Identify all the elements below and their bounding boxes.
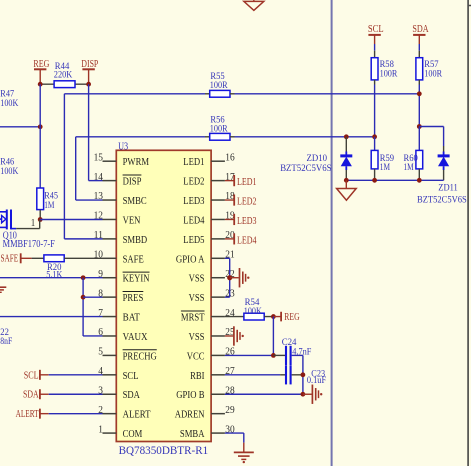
junction MRST-REG [271, 314, 276, 319]
ground at pin 28 [303, 393, 312, 395]
wire ZD11 branch [419, 126, 443, 128]
svg-text:MRST: MRST [181, 312, 205, 324]
ground at pin 25 [225, 335, 233, 337]
svg-text:KEYIN: KEYIN [123, 273, 150, 285]
pin 21 GPIO A [211, 257, 225, 259]
svg-text:GPIO A: GPIO A [176, 253, 205, 265]
transistor Q10 [6, 210, 8, 230]
svg-text:LED1: LED1 [237, 176, 257, 188]
junction R59 bottom [372, 178, 377, 183]
svg-text:ALERT: ALERT [123, 409, 151, 421]
wire VAUX row [83, 335, 102, 337]
power port REG (right) [273, 316, 281, 318]
svg-text:ALERT: ALERT [16, 408, 39, 420]
wire SMBD to R55 [63, 94, 65, 239]
svg-text:0.1uF: 0.1uF [307, 376, 326, 386]
net label LED2 [225, 199, 234, 201]
svg-text:VSS: VSS [189, 292, 205, 304]
svg-text:SMBD: SMBD [123, 234, 148, 246]
pin 14 DISP [103, 180, 117, 182]
junction ZD10 bottom [344, 178, 349, 183]
resistor R57 [418, 51, 420, 58]
svg-text:SDA: SDA [412, 23, 428, 35]
resistor R56 [76, 136, 205, 138]
junction R45-Q10-VEN [38, 217, 43, 222]
pin 7 BAT [103, 316, 117, 318]
wire R58 down [374, 85, 376, 137]
svg-text:VCC: VCC [187, 350, 205, 362]
pin 22 VSS [211, 277, 225, 279]
svg-text:R57: R57 [424, 60, 439, 70]
svg-text:SCL: SCL [24, 369, 39, 381]
wire PRES row [83, 296, 102, 298]
net label LED1 [225, 180, 234, 182]
pin 8 PRES [103, 296, 117, 298]
power port SDA (top) [418, 35, 420, 44]
wire ALERT row [49, 413, 103, 415]
svg-text:7: 7 [98, 307, 103, 319]
svg-text:U3: U3 [118, 141, 128, 152]
svg-text:8: 8 [98, 287, 103, 299]
svg-text:COM: COM [123, 428, 143, 440]
sheet border line [331, 0, 333, 466]
svg-text:1: 1 [31, 217, 36, 229]
pin 2 ALERT [103, 413, 117, 415]
junction ZD10 top [344, 134, 349, 139]
svg-text:DISP: DISP [123, 176, 142, 188]
pin 3 SDA [103, 393, 117, 395]
pin 12 VEN [103, 218, 117, 220]
svg-text:29: 29 [225, 404, 234, 416]
wire VEN [40, 219, 102, 221]
svg-text:100K: 100K [0, 99, 18, 109]
net label LED4 [225, 238, 234, 240]
wire zener bottom rail [346, 179, 443, 181]
svg-text:100K: 100K [0, 167, 18, 177]
svg-text:REG: REG [284, 311, 299, 323]
svg-text:VAUX: VAUX [123, 331, 148, 343]
wire REG vertical to VCC [272, 317, 274, 356]
svg-text:REG: REG [33, 58, 49, 70]
pin 26 VCC [211, 354, 225, 356]
pin 18 LED3 [211, 199, 225, 201]
pin 15 PWRM [103, 160, 117, 162]
junction PRES [81, 295, 86, 300]
svg-text:9: 9 [98, 268, 103, 280]
svg-text:LED1: LED1 [183, 156, 204, 168]
junction VCC [271, 353, 276, 358]
svg-text:16: 16 [225, 151, 235, 163]
ground (left edge partial) [0, 286, 6, 288]
junction RBI-C23 [301, 372, 306, 377]
IC U3 body [116, 150, 211, 441]
sheet edge line right [467, 0, 469, 466]
zener diode ZD11 [443, 146, 445, 152]
wire SMBA [225, 432, 244, 434]
svg-text:2: 2 [98, 404, 103, 416]
pin 11 SMBD [103, 238, 117, 240]
pin 4 SCL [103, 374, 117, 376]
pin 5 PRECHG [103, 354, 117, 356]
svg-text:PWRM: PWRM [123, 156, 150, 168]
wire SDA row [49, 393, 103, 395]
svg-text:SMBA: SMBA [180, 428, 205, 440]
junction R60 bottom [417, 178, 422, 183]
resistor R20 [32, 257, 44, 259]
pin 23 VSS [211, 296, 225, 298]
svg-text:ZD11: ZD11 [438, 184, 458, 194]
power port SCL (top) [374, 35, 376, 44]
wire R55 to SDA column [235, 93, 420, 95]
junction GPIO B [301, 392, 306, 397]
power port DISP [88, 69, 90, 84]
svg-text:5.1K: 5.1K [46, 270, 62, 280]
wire REG vertical [39, 84, 41, 188]
pin 30 SMBA [211, 432, 225, 434]
svg-text:4: 4 [98, 365, 103, 377]
junction KEYIN [81, 275, 86, 280]
capacitor C23 [225, 374, 280, 376]
svg-text:LED4: LED4 [237, 234, 257, 246]
wire R44 row [40, 83, 88, 85]
svg-text:1M: 1M [380, 163, 391, 173]
svg-text:12: 12 [94, 210, 103, 222]
pin 25 VSS [211, 335, 225, 337]
svg-text:8nF: 8nF [0, 337, 12, 347]
pin 1 COM [103, 432, 117, 434]
pin 29 ADREN [211, 413, 225, 415]
wire DISP vertical [88, 84, 90, 180]
wire GPIO A to VSS [225, 257, 230, 259]
junction R56-SCL [372, 134, 377, 139]
svg-text:BAT: BAT [123, 312, 141, 324]
svg-text:R46: R46 [0, 157, 14, 167]
resistor R58 [374, 51, 376, 58]
svg-text:1M: 1M [44, 201, 55, 211]
svg-text:SAFE: SAFE [1, 252, 19, 264]
svg-text:100R: 100R [210, 124, 228, 134]
svg-text:SDA: SDA [23, 389, 39, 401]
svg-text:LED3: LED3 [183, 195, 205, 207]
svg-text:220K: 220K [54, 71, 73, 81]
pin 13 SMBC [103, 199, 117, 201]
wire BAT row [0, 316, 103, 318]
svg-text:SAFE: SAFE [123, 253, 144, 265]
capacitor C24 [273, 354, 285, 356]
resistor R45 [37, 188, 44, 210]
pin 24 MRST [211, 316, 225, 318]
svg-text:R45: R45 [44, 191, 58, 201]
svg-text:100R: 100R [380, 70, 398, 80]
svg-text:100R: 100R [210, 81, 228, 91]
svg-text:DISP: DISP [81, 58, 98, 70]
ground (below ZD10) [345, 180, 347, 188]
svg-text:5: 5 [98, 346, 103, 358]
svg-text:LED4: LED4 [183, 214, 205, 226]
svg-text:SDA: SDA [123, 389, 140, 401]
pin 28 GPIO B [211, 393, 225, 395]
svg-text:3: 3 [98, 384, 103, 396]
svg-text:SMBC: SMBC [123, 195, 147, 207]
svg-text:15: 15 [94, 151, 103, 163]
zener diode ZD10 [345, 137, 347, 152]
wire R56 to SCL column [235, 136, 375, 138]
svg-text:ADREN: ADREN [175, 409, 205, 421]
wire SMBC to R56 [75, 137, 77, 200]
junction DISP-R44 [86, 82, 91, 87]
svg-text:VSS: VSS [189, 331, 205, 343]
svg-text:GPIO B: GPIO B [176, 389, 204, 401]
wire KEYIN row [0, 277, 103, 279]
svg-text:VSS: VSS [189, 273, 205, 285]
svg-text:MMBF170-7-F: MMBF170-7-F [3, 239, 56, 250]
power port REG [39, 69, 41, 84]
svg-text:LED2: LED2 [183, 176, 204, 188]
svg-text:ZD10: ZD10 [307, 154, 328, 164]
ground (SMBA) [243, 443, 245, 453]
svg-text:BZT52C5V6S: BZT52C5V6S [417, 196, 467, 206]
svg-text:LED5: LED5 [183, 234, 205, 246]
resistor R59 [374, 137, 376, 151]
svg-text:PRES: PRES [123, 292, 144, 304]
pin 6 VAUX [103, 335, 117, 337]
svg-text:RBI: RBI [190, 370, 205, 382]
svg-text:SCL: SCL [368, 23, 384, 35]
pin 27 RBI [211, 374, 225, 376]
svg-text:10: 10 [94, 249, 103, 261]
wire R57 down [418, 85, 420, 127]
svg-text:PRECHG: PRECHG [123, 350, 157, 362]
svg-text:1: 1 [98, 423, 103, 435]
resistor R44 [54, 81, 75, 88]
pin 16 LED1 [211, 160, 225, 162]
svg-text:BQ78350DBTR-R1: BQ78350DBTR-R1 [119, 445, 209, 457]
pin 19 LED4 [211, 218, 225, 220]
svg-text:1M: 1M [404, 163, 415, 173]
svg-text:4.7nF: 4.7nF [292, 347, 311, 357]
wire C24 to C23 vertical [302, 355, 304, 394]
ground at pin 22 [230, 277, 239, 279]
wire SCL row [49, 374, 103, 376]
net label LED3 [225, 218, 234, 220]
svg-text:BZT52C5V6S: BZT52C5V6S [280, 164, 331, 174]
resistor R55 [64, 93, 205, 95]
wire VCC row [225, 354, 274, 356]
wire Q10 drain [16, 228, 40, 230]
ground (top) [244, 1, 264, 10]
wire vertical KEYIN-VAUX [82, 278, 84, 336]
junction ZD11 branch [417, 124, 422, 129]
junction R55-SDA [417, 91, 422, 96]
svg-text:R58: R58 [380, 60, 395, 70]
resistor R54 [225, 316, 244, 318]
svg-text:6: 6 [98, 326, 103, 338]
svg-text:100K: 100K [244, 307, 262, 317]
svg-text:LED2: LED2 [237, 196, 257, 208]
resistor R60 [418, 127, 420, 151]
junction VSS pin22 [227, 275, 232, 280]
junction REG-R44 [38, 82, 43, 87]
svg-text:SCL: SCL [123, 370, 139, 382]
wire R47 row [0, 126, 40, 128]
svg-text:100R: 100R [424, 70, 442, 80]
junction R47 row [38, 124, 43, 129]
pin 17 LED2 [211, 180, 225, 182]
pin 9 KEYIN [103, 277, 117, 279]
svg-text:LED3: LED3 [237, 215, 257, 227]
pin 20 LED5 [211, 238, 225, 240]
svg-text:VEN: VEN [123, 214, 141, 226]
pin 10 SAFE [103, 257, 117, 259]
wire GPIO B row [225, 393, 303, 395]
